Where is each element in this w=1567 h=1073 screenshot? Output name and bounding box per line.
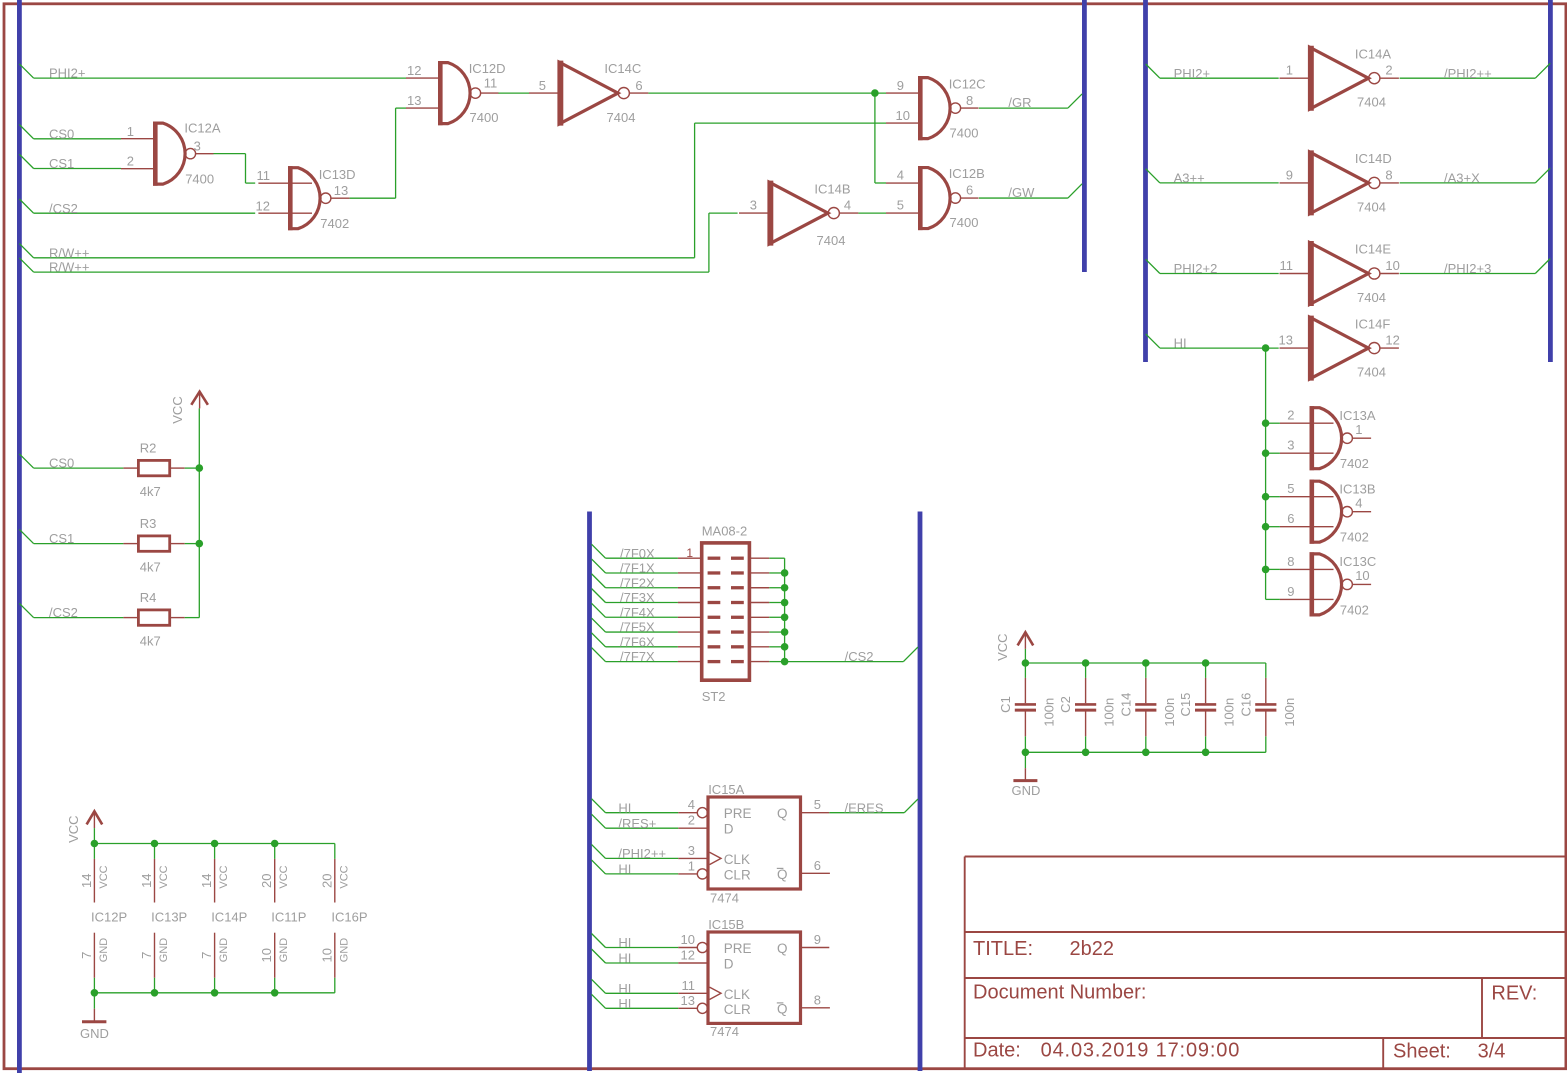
svg-text:CLR: CLR xyxy=(724,867,751,882)
svg-text:/CS2: /CS2 xyxy=(845,649,874,664)
junction caps top x1025 xyxy=(1022,659,1030,667)
svg-text:/7F6X: /7F6X xyxy=(620,634,655,649)
capacitor C2 xyxy=(1058,678,1117,736)
junction HI 453 xyxy=(1262,449,1270,457)
svg-text:7404: 7404 xyxy=(607,110,636,125)
resistor R4 xyxy=(123,590,184,648)
wire caps VCC rail xyxy=(1025,649,1265,768)
svg-text:VCC: VCC xyxy=(995,633,1010,660)
wire /7F4X xyxy=(592,603,678,620)
svg-text:2: 2 xyxy=(1287,408,1294,423)
bus right-edge xyxy=(1548,0,1553,362)
svg-text:IC13B: IC13B xyxy=(1339,482,1375,497)
svg-text:PRE: PRE xyxy=(724,941,752,956)
svg-text:R2: R2 xyxy=(140,441,157,456)
svg-text:8: 8 xyxy=(1287,554,1294,569)
svg-text:R3: R3 xyxy=(140,516,157,531)
NOR gate IC13B xyxy=(1280,480,1376,545)
svg-text:CS0: CS0 xyxy=(49,126,74,141)
svg-text:REV:: REV: xyxy=(1491,983,1537,1005)
svg-text:/ERES: /ERES xyxy=(845,800,884,815)
svg-text:7402: 7402 xyxy=(1340,602,1369,617)
svg-text:Q: Q xyxy=(777,1001,788,1016)
junction caps bottom x1085 xyxy=(1082,749,1090,757)
svg-text:CLK: CLK xyxy=(724,987,750,1002)
junction IC14C out xyxy=(871,89,879,97)
inverter IC14E xyxy=(1280,241,1400,306)
bus left edge xyxy=(17,0,22,1073)
wire A3++ xyxy=(1146,169,1279,186)
svg-text:IC12D: IC12D xyxy=(469,61,506,76)
junction power bottom x274 xyxy=(271,989,279,997)
wire /GW xyxy=(979,184,1082,200)
svg-text:7474: 7474 xyxy=(710,890,739,905)
svg-text:GND: GND xyxy=(158,938,170,963)
wire /GR xyxy=(979,94,1082,110)
svg-text:/CS2: /CS2 xyxy=(49,201,78,216)
svg-text:CS1: CS1 xyxy=(49,156,74,171)
svg-text:10: 10 xyxy=(259,948,274,962)
wire IC12D out to IC14C in xyxy=(498,92,529,94)
junction R3 xyxy=(196,540,204,548)
wire /PHI2++ xyxy=(1400,63,1551,81)
svg-text:IC12A: IC12A xyxy=(184,121,220,136)
svg-text:HI: HI xyxy=(618,862,631,877)
svg-text:7400: 7400 xyxy=(470,110,499,125)
svg-text:7400: 7400 xyxy=(950,125,979,140)
svg-text:IC14D: IC14D xyxy=(1355,151,1392,166)
svg-text:9: 9 xyxy=(1287,584,1294,599)
junction HI 496 xyxy=(1262,493,1270,501)
ground symbol (power) xyxy=(80,1009,109,1041)
wire PHI2+2 xyxy=(1146,259,1279,276)
svg-text:/7F2X: /7F2X xyxy=(620,575,655,590)
wire HI to IC15B pin y1008 xyxy=(592,994,679,1011)
svg-text:3/4: 3/4 xyxy=(1478,1041,1506,1063)
wire /ERES xyxy=(829,799,918,815)
svg-text:13: 13 xyxy=(681,993,695,1008)
wire /PHI2++ to IC15A xyxy=(592,844,679,861)
svg-text:4k7: 4k7 xyxy=(140,484,161,499)
junction caps top x1205 xyxy=(1202,659,1210,667)
NOR gate IC13A xyxy=(1280,406,1376,471)
svg-text:D: D xyxy=(724,822,734,837)
svg-text:3: 3 xyxy=(750,198,757,213)
svg-text:7400: 7400 xyxy=(950,215,979,230)
wire /7F6X xyxy=(592,633,678,650)
junction caps bottom x1025 xyxy=(1022,749,1030,757)
wire IC14C out net xyxy=(648,93,886,183)
junction power bottom x94 xyxy=(91,989,99,997)
junction power bottom x154 xyxy=(151,989,159,997)
wire IC12A out to IC13D pin11 xyxy=(214,154,256,183)
junction power top x154 xyxy=(151,840,159,848)
power pins IC13P xyxy=(139,859,187,978)
svg-text:/CS2: /CS2 xyxy=(49,605,78,620)
svg-text:IC13A: IC13A xyxy=(1339,408,1375,423)
svg-text:GND: GND xyxy=(278,938,290,963)
svg-text:9: 9 xyxy=(814,932,821,947)
svg-text:C14: C14 xyxy=(1118,693,1133,717)
junction connector row y646 xyxy=(781,643,789,651)
svg-text:13: 13 xyxy=(334,183,348,198)
svg-text:/7F0X: /7F0X xyxy=(620,546,655,561)
junction connector row y632 xyxy=(781,628,789,636)
svg-text:11: 11 xyxy=(682,978,696,993)
wire /7F0X xyxy=(592,544,678,561)
wire R/W++ upper xyxy=(19,123,886,260)
wire HI to IC15B pin y947 xyxy=(592,934,679,951)
svg-text:/7F1X: /7F1X xyxy=(620,561,655,576)
svg-text:IC14E: IC14E xyxy=(1355,242,1391,257)
svg-text:MA08-2: MA08-2 xyxy=(702,524,748,539)
svg-text:14: 14 xyxy=(199,873,214,887)
svg-text:HI: HI xyxy=(618,981,631,996)
power pins IC11P xyxy=(259,859,306,978)
svg-text:7: 7 xyxy=(79,952,94,959)
svg-text:5: 5 xyxy=(1287,481,1294,496)
svg-text:HI: HI xyxy=(618,935,631,950)
wire /7F2X xyxy=(592,574,678,591)
svg-text:5: 5 xyxy=(897,198,904,213)
wire resistor VCC vertical xyxy=(198,408,200,617)
connector ST2 (MA08-2) xyxy=(678,524,769,704)
svg-text:4: 4 xyxy=(897,168,904,183)
svg-text:IC12B: IC12B xyxy=(949,166,985,181)
svg-text:GND: GND xyxy=(80,1026,109,1041)
bus right-inner xyxy=(1143,0,1148,362)
svg-text:PHI2+: PHI2+ xyxy=(49,66,86,81)
svg-text:R4: R4 xyxy=(140,590,157,605)
power pins IC12P xyxy=(79,859,127,978)
capacitor C14 xyxy=(1118,678,1177,736)
svg-text:7: 7 xyxy=(139,952,154,959)
svg-text:11: 11 xyxy=(484,75,498,90)
svg-text:1: 1 xyxy=(688,858,695,873)
wire /RES+ to IC15A xyxy=(592,814,679,831)
wire R3 to VCC rail xyxy=(185,543,200,545)
wire CS0 (pull-up row) xyxy=(19,454,123,471)
wire /A3+X xyxy=(1400,168,1551,186)
svg-text:11: 11 xyxy=(1280,258,1294,273)
svg-text:7402: 7402 xyxy=(1340,456,1369,471)
svg-text:20: 20 xyxy=(259,873,274,887)
svg-text:4: 4 xyxy=(844,198,851,213)
svg-text:2b22: 2b22 xyxy=(1070,938,1115,960)
svg-text:13: 13 xyxy=(1279,333,1293,348)
resistor R2 xyxy=(123,441,184,499)
svg-text:PHI2+: PHI2+ xyxy=(1174,66,1211,81)
svg-text:CLR: CLR xyxy=(724,1002,751,1017)
svg-text:/GR: /GR xyxy=(1008,95,1031,110)
svg-text:10: 10 xyxy=(319,948,334,962)
svg-text:IC14C: IC14C xyxy=(604,61,641,76)
svg-text:CS1: CS1 xyxy=(49,531,74,546)
svg-text:VCC: VCC xyxy=(98,865,110,888)
svg-text:PRE: PRE xyxy=(724,806,752,821)
wire R2 to VCC rail xyxy=(185,467,200,469)
wire PHI2+ xyxy=(1146,64,1279,81)
capacitor C16 xyxy=(1238,678,1297,736)
svg-text:ST2: ST2 xyxy=(702,689,726,704)
VCC symbol (resistors) xyxy=(170,392,208,424)
junction R2 xyxy=(196,464,204,472)
svg-text:7404: 7404 xyxy=(1357,95,1386,110)
svg-text:7402: 7402 xyxy=(320,216,349,231)
svg-text:Q: Q xyxy=(777,806,788,821)
svg-text:VCC: VCC xyxy=(278,865,290,888)
wire HI to IC15B pin y993 xyxy=(592,979,679,996)
svg-text:12: 12 xyxy=(407,63,421,78)
junction connector row y661 xyxy=(781,658,789,666)
ground symbol (caps) xyxy=(1012,768,1041,798)
wire R/W++ lower xyxy=(19,213,737,275)
svg-text:3: 3 xyxy=(688,843,695,858)
svg-text:1: 1 xyxy=(127,124,134,139)
inverter IC14B xyxy=(739,181,858,248)
svg-text:PHI2+2: PHI2+2 xyxy=(1174,261,1218,276)
wire /CS2 top xyxy=(19,199,255,216)
svg-text:2: 2 xyxy=(1385,63,1392,78)
NAND gate IC12A xyxy=(121,121,221,187)
svg-text:IC12P: IC12P xyxy=(91,910,127,925)
junction power bottom x214 xyxy=(211,989,219,997)
svg-text:HI: HI xyxy=(1174,336,1187,351)
svg-text:5: 5 xyxy=(814,797,821,812)
svg-text:7404: 7404 xyxy=(1357,365,1386,380)
svg-text:8: 8 xyxy=(1385,167,1392,182)
svg-text:7404: 7404 xyxy=(1357,199,1386,214)
svg-text:GND: GND xyxy=(218,938,230,963)
svg-text:Q: Q xyxy=(777,941,788,956)
inverter IC14D xyxy=(1280,150,1399,215)
wire /PHI2+3 xyxy=(1400,259,1551,277)
svg-text:6: 6 xyxy=(814,858,821,873)
svg-text:IC14P: IC14P xyxy=(211,910,247,925)
svg-text:100n: 100n xyxy=(1222,698,1237,727)
title block xyxy=(965,857,1566,1069)
svg-text:HI: HI xyxy=(618,800,631,815)
svg-text:14: 14 xyxy=(139,873,154,887)
svg-text:11: 11 xyxy=(257,168,271,183)
wire IC14B out to IC12B pin5 xyxy=(858,212,886,214)
svg-text:/GW: /GW xyxy=(1008,185,1035,200)
junction connector row y587 xyxy=(781,584,789,592)
svg-text:A3++: A3++ xyxy=(1174,171,1205,186)
bus middle-right xyxy=(918,512,923,1072)
resistor R3 xyxy=(123,516,184,574)
wire HI to IC15A xyxy=(592,799,679,816)
bus center-top xyxy=(1082,0,1087,272)
svg-text:GND: GND xyxy=(98,938,110,963)
svg-text:3: 3 xyxy=(1287,438,1294,453)
svg-text:9: 9 xyxy=(897,78,904,93)
svg-text:/7F5X: /7F5X xyxy=(620,620,655,635)
svg-text:CS0: CS0 xyxy=(49,456,74,471)
junction caps top x1145 xyxy=(1142,659,1150,667)
svg-text:10: 10 xyxy=(1355,568,1369,583)
bus middle-left xyxy=(587,512,592,1072)
junction caps bottom x1205 xyxy=(1202,749,1210,757)
svg-text:CLK: CLK xyxy=(724,852,750,867)
svg-text:100n: 100n xyxy=(1162,698,1177,727)
svg-text:IC14B: IC14B xyxy=(814,182,850,197)
wire /7F3X xyxy=(592,589,678,606)
junction power top x94 xyxy=(91,840,99,848)
junction HI 348 xyxy=(1262,344,1270,352)
wire HI right xyxy=(1146,334,1280,600)
svg-text:12: 12 xyxy=(681,948,695,963)
svg-text:04.03.2019 17:09:00: 04.03.2019 17:09:00 xyxy=(1041,1040,1241,1062)
svg-text:IC13D: IC13D xyxy=(319,167,356,182)
wire /7F1X xyxy=(592,559,678,576)
svg-text:1: 1 xyxy=(686,546,693,560)
svg-text:4: 4 xyxy=(688,797,695,812)
svg-text:100n: 100n xyxy=(1041,698,1056,727)
svg-text:R/W++: R/W++ xyxy=(49,245,89,260)
capacitor C1 xyxy=(998,678,1057,736)
svg-text:C2: C2 xyxy=(1058,696,1073,713)
svg-text:3: 3 xyxy=(194,139,201,154)
wire /CS2 (pull-up row) xyxy=(19,603,123,620)
inverter IC14A xyxy=(1280,46,1399,111)
junction connector row y617 xyxy=(781,613,789,621)
NAND gate IC12B xyxy=(886,166,985,230)
svg-text:VCC: VCC xyxy=(218,865,230,888)
svg-text:7: 7 xyxy=(199,952,214,959)
svg-text:6: 6 xyxy=(966,183,973,198)
svg-text:100n: 100n xyxy=(1282,698,1297,727)
svg-text:IC12C: IC12C xyxy=(949,76,986,91)
svg-text:1: 1 xyxy=(1286,63,1293,78)
svg-text:C16: C16 xyxy=(1238,693,1253,717)
svg-text:2: 2 xyxy=(688,813,695,828)
power pins IC16P xyxy=(319,859,367,978)
D flip-flop IC15A xyxy=(678,782,830,905)
svg-text:IC13C: IC13C xyxy=(1339,554,1376,569)
svg-text:20: 20 xyxy=(319,873,334,887)
svg-text:VCC: VCC xyxy=(66,815,81,842)
D flip-flop IC15B xyxy=(678,917,830,1039)
svg-text:8: 8 xyxy=(814,992,821,1007)
junction power top x274 xyxy=(271,840,279,848)
svg-text:Date:: Date: xyxy=(973,1040,1021,1062)
NOR gate IC13D xyxy=(256,166,356,231)
svg-text:IC15B: IC15B xyxy=(708,917,744,932)
svg-text:7402: 7402 xyxy=(1340,530,1369,545)
junction HI 526 xyxy=(1262,523,1270,531)
svg-text:Q: Q xyxy=(777,867,788,882)
svg-text:/7F7X: /7F7X xyxy=(620,649,655,664)
svg-text:/7F4X: /7F4X xyxy=(620,605,655,620)
wire /7F5X xyxy=(592,618,678,635)
svg-text:7400: 7400 xyxy=(185,172,214,187)
svg-text:6: 6 xyxy=(635,78,642,93)
svg-text:14: 14 xyxy=(79,873,94,887)
power pins IC14P xyxy=(199,859,247,978)
svg-text:/A3+X: /A3+X xyxy=(1444,171,1480,186)
svg-text:GND: GND xyxy=(1012,783,1041,798)
junction caps bottom x1145 xyxy=(1142,749,1150,757)
svg-text:TITLE:: TITLE: xyxy=(973,938,1033,960)
svg-text:VCC: VCC xyxy=(158,865,170,888)
svg-text:4: 4 xyxy=(1355,495,1362,510)
svg-text:/RES+: /RES+ xyxy=(618,816,656,831)
junction connector row y572 xyxy=(781,569,789,577)
wire /7F7X xyxy=(592,648,678,665)
wire HI to IC15A xyxy=(592,860,679,877)
svg-text:IC15A: IC15A xyxy=(708,782,744,797)
svg-text:7404: 7404 xyxy=(1357,290,1386,305)
svg-text:10: 10 xyxy=(1385,258,1399,273)
svg-text:7474: 7474 xyxy=(710,1024,739,1039)
junction caps top x1085 xyxy=(1082,659,1090,667)
svg-text:12: 12 xyxy=(1385,333,1399,348)
wire IC13D out to IC12D pin13 xyxy=(350,108,407,198)
NAND gate IC12C xyxy=(886,76,986,140)
svg-text:Sheet:: Sheet: xyxy=(1393,1041,1451,1063)
svg-text:100n: 100n xyxy=(1102,698,1117,727)
svg-text:D: D xyxy=(724,957,734,972)
svg-text:9: 9 xyxy=(1286,167,1293,182)
junction HI 423 xyxy=(1262,419,1270,427)
wire CS1 (pull-up row) xyxy=(19,529,123,546)
VCC symbol (caps) xyxy=(995,632,1033,661)
svg-text:8: 8 xyxy=(966,93,973,108)
svg-text:10: 10 xyxy=(896,108,910,123)
svg-text:IC16P: IC16P xyxy=(331,910,367,925)
svg-text:13: 13 xyxy=(407,93,421,108)
svg-text:/PHI2++: /PHI2++ xyxy=(618,846,666,861)
inverter IC14F xyxy=(1279,316,1400,381)
svg-text:/PHI2++: /PHI2++ xyxy=(1444,66,1492,81)
svg-text:2: 2 xyxy=(127,154,134,169)
junction power top x214 xyxy=(211,840,219,848)
NOR gate IC13C xyxy=(1280,552,1376,617)
wire PHI2+ xyxy=(19,64,406,81)
svg-text:VCC: VCC xyxy=(170,396,185,423)
svg-text:IC13P: IC13P xyxy=(151,910,187,925)
junction HI 569 xyxy=(1262,566,1270,574)
svg-text:6: 6 xyxy=(1287,511,1294,526)
svg-text:/PHI2+3: /PHI2+3 xyxy=(1444,261,1491,276)
svg-text:4k7: 4k7 xyxy=(140,634,161,649)
svg-text:4k7: 4k7 xyxy=(140,560,161,575)
svg-text:IC11P: IC11P xyxy=(271,910,306,925)
svg-text:R/W++: R/W++ xyxy=(49,260,89,275)
wire R4 to VCC rail xyxy=(185,617,200,619)
svg-text:HI: HI xyxy=(618,951,631,966)
wire HI to IC15B pin y963 xyxy=(592,949,679,966)
inverter IC14C xyxy=(529,61,648,126)
svg-text:1: 1 xyxy=(1355,422,1362,437)
junction connector row y602 xyxy=(781,599,789,607)
svg-text:5: 5 xyxy=(539,78,546,93)
svg-text:C1: C1 xyxy=(998,696,1013,713)
wire CS0 xyxy=(19,125,121,142)
svg-text:GND: GND xyxy=(338,938,350,963)
capacitor C15 xyxy=(1178,678,1237,736)
svg-text:IC14F: IC14F xyxy=(1355,316,1390,331)
svg-text:Document Number:: Document Number: xyxy=(973,982,1146,1004)
svg-text:IC14A: IC14A xyxy=(1355,46,1391,61)
NAND gate IC12D xyxy=(406,61,506,125)
svg-text:/7F3X: /7F3X xyxy=(620,590,655,605)
wire CS1 xyxy=(19,154,121,171)
svg-text:C15: C15 xyxy=(1178,693,1193,717)
wire power VCC rail xyxy=(94,828,334,1009)
svg-text:12: 12 xyxy=(256,198,270,213)
